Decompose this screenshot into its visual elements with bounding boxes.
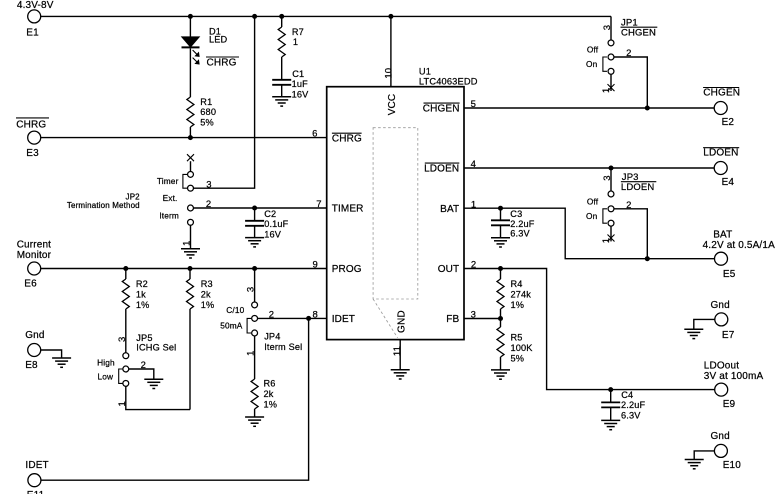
wire OUT net U1 pin 2 to E9 [464,269,715,390]
svg-text:1%: 1% [511,300,525,310]
svg-text:1: 1 [246,350,257,355]
ground of E10 [685,459,704,461]
svg-text:1: 1 [471,199,476,210]
svg-text:E11: E11 [27,490,45,494]
jumper JP3 LDOEN [610,168,612,191]
svg-text:LDOEN: LDOEN [424,164,459,175]
svg-text:LED: LED [209,35,228,45]
terminal E8 (Gnd) [28,344,41,357]
terminal E11 (IDET) [28,474,41,487]
svg-text:C2: C2 [264,209,276,219]
junction top rail / R7 [279,14,284,19]
junction TIMER / C2 [252,206,257,211]
terminal E2 (CHGEN) [703,87,739,89]
svg-text:Gnd: Gnd [25,330,44,341]
svg-text:Low: Low [98,371,115,381]
svg-text:JP2: JP2 [126,192,141,201]
wire IDET net JP4 pin 2 to U1 pin 8 [258,317,327,319]
svg-text:10: 10 [383,68,394,79]
op-amp U1 LTC4063EDD body [327,87,464,340]
resistor R6 [251,379,258,409]
ground of C2 [245,237,264,239]
svg-text:4: 4 [471,159,476,170]
svg-text:C3: C3 [510,209,522,219]
capacitor C1 [272,79,291,81]
svg-text:5: 5 [471,99,476,110]
junction CHGEN / JP1 [645,106,650,111]
svg-text:Off: Off [587,197,599,207]
resistor R5 [500,319,502,328]
svg-text:E3: E3 [26,148,39,159]
exposed pad outline (dashed) [373,128,418,299]
wire E7 to ground [694,319,715,329]
svg-text:6.3V: 6.3V [510,229,530,239]
svg-text:E7: E7 [722,330,735,341]
ground of E7 [684,328,703,330]
resistor R7 [281,16,283,27]
svg-text:High: High [97,357,115,367]
junction IDET / E11 drop [306,316,311,321]
pin name CHRG [332,132,362,134]
junction top rail / VCC pin [388,14,393,19]
svg-text:OUT: OUT [438,264,460,275]
svg-text:2k: 2k [264,389,274,399]
svg-text:680: 680 [200,107,216,117]
svg-text:R2: R2 [136,279,148,289]
svg-text:On: On [586,211,598,221]
svg-text:Ext.: Ext. [163,193,178,203]
svg-text:PROG: PROG [332,264,362,275]
junction BAT / JP3 drop [645,256,650,261]
terminal E4 (LDOEN) [703,147,739,149]
wire BAT net U1 pin 1 to E5 [464,208,714,259]
ground of E8 [52,357,71,359]
junction PROG / JP4 [252,266,257,271]
svg-text:TIMER: TIMER [332,204,364,215]
diode D1 LED [189,16,191,37]
wire E10 to ground [694,451,714,460]
svg-text:8: 8 [312,309,317,320]
svg-text:3V at 100mA: 3V at 100mA [704,371,764,382]
capacitor C4 [610,390,612,403]
svg-text:BAT: BAT [440,204,459,215]
junction FB / R4 / R5 [498,316,503,321]
ground of R6 [245,416,264,418]
wire IDET to E11 [41,318,309,480]
svg-text:Termination Method: Termination Method [67,201,140,210]
pin name CHGEN [424,102,460,104]
svg-text:2k: 2k [201,290,211,300]
svg-text:16V: 16V [264,229,282,239]
svg-text:Timer: Timer [157,176,179,186]
wire JP2 pin 3 to VCC rail [193,16,254,188]
svg-text:1: 1 [601,88,612,93]
wire JP5 pin 1 to R3 bottom [126,386,190,409]
no-connect mark JP3 pin 1 [610,226,612,241]
label CHRG net of D1 [206,56,239,58]
svg-text:1: 1 [601,238,612,243]
wire GND pin 11 [399,340,401,370]
svg-text:1: 1 [293,37,298,47]
resistor R1 [187,97,194,127]
junction LDOEN / JP3 [609,166,614,171]
svg-text:Current: Current [17,239,51,250]
resistor R2 [125,269,127,280]
ground of C1 [272,96,291,98]
svg-text:C/10: C/10 [226,305,244,315]
svg-text:1%: 1% [136,300,150,310]
resistor R4 [500,269,502,280]
pin name LDOEN [425,162,460,164]
svg-text:Off: Off [587,45,599,55]
svg-text:Monitor: Monitor [17,250,52,261]
svg-text:9: 9 [312,259,317,270]
wire JP1 pin 2 to CHGEN net [614,57,647,108]
svg-text:E10: E10 [723,460,742,471]
svg-text:R3: R3 [201,279,213,289]
svg-text:50mA: 50mA [220,321,243,331]
svg-text:1%: 1% [264,399,278,409]
svg-text:JP5: JP5 [136,333,152,343]
svg-text:CHRG: CHRG [207,58,237,69]
junction top rail / D1 [188,14,193,19]
wire FB net U1 pin 3 to R4/R5 [464,318,501,320]
svg-text:6.3V: 6.3V [621,411,641,421]
svg-text:E2: E2 [722,117,735,128]
wire VCC pin 10 [390,16,392,86]
junction top rail / JP2 tap [252,14,257,19]
junction CHRG / R1 [188,135,193,140]
wire JP2 pin 1 to ground [190,225,192,248]
junction BAT / C3 [498,206,503,211]
svg-text:CHRG: CHRG [16,119,46,130]
svg-text:E4: E4 [722,177,735,188]
svg-text:U1: U1 [419,67,431,77]
wire JP5 pin 2 to ground [129,369,154,379]
svg-text:5%: 5% [511,354,525,364]
jumper JP1 CHGEN [610,16,612,40]
svg-text:0.1uF: 0.1uF [264,219,288,229]
svg-text:6: 6 [312,128,317,139]
svg-text:R7: R7 [292,27,304,37]
svg-text:JP4: JP4 [264,332,280,342]
svg-text:LTC4063EDD: LTC4063EDD [419,77,478,87]
svg-text:R6: R6 [264,379,276,389]
svg-text:1k: 1k [136,290,146,300]
svg-text:7: 7 [316,199,321,210]
svg-text:11: 11 [392,346,403,356]
wire VCC top rail [41,15,611,17]
svg-text:R4: R4 [511,279,523,289]
svg-text:CHGEN: CHGEN [621,27,656,38]
svg-text:1: 1 [117,401,128,406]
svg-text:Gnd: Gnd [711,300,730,311]
svg-text:R5: R5 [511,333,523,343]
svg-text:E1: E1 [26,27,39,38]
wire JP4 pin 1 to R6 [254,336,256,379]
svg-text:FB: FB [446,314,459,325]
wire CHGEN net U1 pin 5 to E2 [464,107,714,109]
svg-text:C4: C4 [621,390,633,400]
ground of JP5 pin 2 [144,378,163,380]
capacitor C3 [500,208,502,220]
svg-text:2.2uF: 2.2uF [621,400,645,410]
svg-text:2: 2 [471,260,476,271]
svg-text:5%: 5% [200,117,214,127]
svg-text:1%: 1% [201,300,215,310]
wire E8 to ground [41,350,62,358]
svg-text:C1: C1 [292,69,304,79]
wire LDOEN net U1 pin 4 to E4 [464,167,714,169]
terminal E1 (4.3V-8V input) [28,10,41,23]
wire TIMER net JP2 pin 2 to U1 pin 7 [193,207,326,209]
jumper JP2 Termination Method [187,154,194,161]
wire PROG net E6 to U1 pin 9 [41,268,327,270]
resistor R3 [189,269,191,280]
svg-text:100K: 100K [511,343,534,353]
junction PROG / R3 [188,266,193,271]
svg-text:3: 3 [602,25,613,30]
ground of C3 [491,237,510,239]
svg-text:1uF: 1uF [292,79,309,89]
svg-text:GND: GND [397,310,408,333]
svg-text:3: 3 [471,310,476,321]
terminal E6 (current monitor) [28,262,41,275]
svg-text:3: 3 [117,337,128,342]
wire JP3 pin 2 to BAT net [614,209,647,259]
ground of JP2 pin 1 [181,248,200,250]
ground of U1 GND pin [391,369,410,371]
svg-text:ICHG Sel: ICHG Sel [136,343,176,353]
svg-text:E9: E9 [723,399,736,410]
svg-text:4.3V-8V: 4.3V-8V [17,0,54,11]
svg-text:E5: E5 [723,269,736,280]
svg-text:274k: 274k [511,289,532,299]
svg-text:3: 3 [602,175,613,180]
svg-text:3: 3 [246,287,257,292]
ground of C4 [601,419,620,421]
junction OUT / C4 [608,387,613,392]
terminal E3 (CHRG output) [28,131,41,144]
svg-text:IDET: IDET [25,460,48,471]
junction OUT / R4 [498,266,503,271]
svg-text:E8: E8 [25,360,38,371]
junction PROG / R2 [123,266,128,271]
wire CHRG net E3 to U1 pin 6 [41,137,327,139]
svg-text:Iterm: Iterm [159,211,179,221]
svg-text:16V: 16V [292,89,310,99]
svg-text:IDET: IDET [332,314,355,325]
svg-text:VCC: VCC [387,94,398,116]
svg-text:BAT: BAT [713,230,732,241]
svg-text:LDOEN: LDOEN [621,182,654,193]
capacitor C2 [254,208,256,221]
svg-text:E6: E6 [24,279,37,290]
svg-text:Iterm Sel: Iterm Sel [264,342,302,352]
svg-text:1: 1 [182,240,193,245]
jumper JP4 Iterm Sel [254,269,256,302]
svg-text:LDOEN: LDOEN [703,148,738,159]
svg-text:CHRG: CHRG [332,133,362,144]
svg-text:CHGEN: CHGEN [423,104,460,115]
svg-text:4.2V at 0.5A/1A: 4.2V at 0.5A/1A [703,240,775,251]
svg-text:On: On [586,59,598,69]
svg-text:Gnd: Gnd [711,431,730,442]
svg-text:CHGEN: CHGEN [703,88,740,99]
no-connect mark JP1 pin 1 [610,74,612,91]
ground of R5 [491,369,510,371]
svg-text:R1: R1 [200,97,212,107]
